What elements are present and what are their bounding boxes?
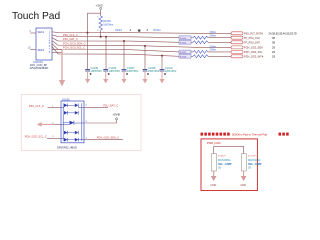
wire row1 pin1 to port — [52, 32, 233, 34]
svg-text:GND: GND — [240, 183, 246, 187]
svg-text:PCH_I2C0_INT#: PCH_I2C0_INT# — [244, 55, 264, 59]
svg-text:P5U_DAT_C: P5U_DAT_C — [103, 104, 118, 108]
svg-text:+5VB: +5VB — [112, 113, 119, 117]
junction node row4 — [144, 45, 146, 47]
port PCH_I2C0_INT# — [231, 55, 275, 59]
svg-text:SEK1: SEK1 — [38, 30, 45, 34]
svg-text:10KOhm: 10KOhm — [103, 23, 113, 26]
svg-text:10PF/50V: 10PF/50V — [109, 69, 121, 73]
wire R1036 to row2 — [100, 30, 102, 37]
svg-text:10PF/50V: 10PF/50V — [148, 69, 160, 73]
wire row2 pin2 to X104 — [52, 35, 179, 38]
wire jumper top — [214, 146, 244, 153]
region box PWR_DAM — [201, 139, 257, 191]
note title pads — [201, 133, 289, 137]
wire P5U_DAT_C right — [84, 106, 108, 108]
svg-text:PCH_I2C0_SCL_C: PCH_I2C0_SCL_C — [63, 46, 85, 50]
wire PCH_I2C0_SDA_C right — [84, 138, 123, 140]
svg-text:E1106: E1106 — [180, 43, 187, 45]
wire X104 element A out — [191, 37, 193, 39]
svg-text:for BOT: for BOT — [218, 155, 226, 158]
svg-text:+3V3: +3V3 — [96, 3, 103, 7]
ground arrow connector — [59, 49, 65, 86]
connector CN1001 — [30, 28, 53, 70]
resistor X104 element A (TP_P5U_CLK) — [193, 36, 208, 39]
svg-text:3Ohm: 3Ohm — [210, 49, 217, 52]
wire pin8 gnd — [52, 51, 62, 53]
resistor R1036 — [97, 16, 113, 32]
svg-text:PCH_I2C0_SDA_C: PCH_I2C0_SDA_C — [63, 42, 86, 46]
junction node row6 — [161, 55, 163, 57]
svg-text:SEK2: SEK2 — [38, 48, 45, 52]
wire row5 pin5 to X104 — [52, 44, 179, 52]
pin numbers D1005 — [52, 105, 87, 140]
svg-text:PCH_I2C0_SDA_C: PCH_I2C0_SDA_C — [97, 136, 120, 140]
svg-text:PCH_I2C0_SCL: PCH_I2C0_SCL — [244, 50, 263, 54]
wire row4 pin4 to X104 — [52, 41, 233, 48]
wire pin10 stub — [30, 49, 36, 51]
svg-text:3Ohm: 3Ohm — [210, 35, 217, 38]
gnd arrow JB1 — [211, 171, 217, 187]
junction node row2 cap — [105, 36, 107, 38]
svg-text:P5U_PLT_RST#: P5U_PLT_RST# — [244, 32, 263, 36]
svg-text:SGL_JUMP: SGL_JUMP — [248, 163, 262, 166]
wire X104 element C out — [191, 51, 193, 53]
svg-text:12V1804948401: 12V1804948401 — [30, 66, 50, 70]
filter E1107 — [179, 50, 191, 54]
wire row3 pin3 to port — [52, 38, 179, 43]
ESD array D1005 — [57, 98, 84, 150]
svg-text:PCH_I2C0_SCL_C: PCH_I2C0_SCL_C — [25, 135, 47, 139]
wire pin9 stub — [30, 32, 36, 34]
wire PCH_I2C0_SCL_C left — [47, 138, 61, 140]
wire pin7 gnd — [52, 48, 62, 50]
resistor X104 element D (PCH_I2C0_INT#) — [193, 55, 208, 58]
region box ESD group — [21, 95, 141, 151]
capacitor C1045 — [85, 33, 102, 84]
svg-text:DRV5R32_4BSD: DRV5R32_4BSD — [57, 145, 77, 149]
jumper JB1 — [211, 154, 231, 171]
diode pair row2 — [64, 111, 78, 115]
capacitor C1047 — [121, 41, 138, 83]
diode pair row4 — [64, 138, 78, 142]
capacitor C1048 — [142, 46, 159, 83]
port TP_P5U_CLK — [231, 36, 275, 40]
resistor X104 element C (PCH_I2C0_SCL) — [193, 50, 208, 53]
svg-text:MGT2445G: MGT2445G — [248, 159, 261, 162]
capacitor C1046 — [103, 37, 120, 84]
svg-text:JB: JB — [218, 167, 221, 170]
svg-text:JB: JB — [248, 167, 251, 170]
junction node row3 — [123, 40, 125, 42]
wire row6 pin6 to port — [52, 47, 179, 57]
port P5U_PLT_RST# — [231, 32, 297, 36]
wire X104 element D out — [191, 55, 193, 57]
svg-text:for TOP: for TOP — [248, 155, 256, 158]
svg-text:10PF/50V: 10PF/50V — [90, 69, 102, 73]
svg-text:TP_P5U_DAT: TP_P5U_DAT — [244, 41, 260, 45]
resistor X104 element B (TP_P5U_DAT) — [193, 41, 208, 44]
svg-text:PWR_DAM: PWR_DAM — [207, 141, 221, 145]
svg-text:GND: GND — [211, 183, 217, 187]
power +3V3 — [96, 3, 103, 16]
svg-text:E1108: E1108 — [180, 57, 187, 59]
svg-text:SGL_JUMP: SGL_JUMP — [218, 163, 232, 166]
svg-text:MGT2445G: MGT2445G — [218, 159, 231, 162]
svg-text:500Ohm Pad or Thermal Pad: 500Ohm Pad or Thermal Pad — [232, 133, 268, 137]
svg-text:Touch Pad: Touch Pad — [12, 11, 60, 22]
junction node row1 — [87, 32, 89, 34]
svg-text:E1107: E1107 — [180, 52, 187, 54]
wire power branch left — [88, 13, 101, 33]
svg-text:10PF/50V: 10PF/50V — [127, 69, 139, 73]
filter pad E1105 — [179, 36, 191, 40]
svg-text:E1105: E1105 — [180, 38, 187, 40]
svg-text:P5U_DAT_C: P5U_DAT_C — [63, 37, 78, 41]
resistor pack label X104 — [115, 28, 161, 33]
gnd arrow left esd — [37, 122, 61, 127]
port TP_P5U_DAT — [231, 41, 275, 45]
diode pair row3 — [64, 131, 78, 135]
svg-text:X104: X104 — [115, 28, 122, 32]
power +5VB — [84, 113, 120, 123]
svg-text:P5U_CLK_C: P5U_CLK_C — [29, 104, 44, 108]
filter E1106 — [179, 41, 191, 45]
svg-text:PCH_I2C0_SDA: PCH_I2C0_SDA — [244, 46, 263, 50]
port PCH_I2C0_SCL — [231, 50, 275, 54]
jumper JB2 — [241, 154, 262, 171]
zener diode center — [63, 121, 74, 125]
capacitor C1019 — [159, 56, 176, 84]
diode pair row1 — [64, 104, 78, 108]
gnd arrow JB2 — [240, 171, 246, 187]
filter E1108 — [179, 55, 191, 59]
svg-text:3Ohm: 3Ohm — [153, 28, 161, 32]
port PCH_I2C0_SDA — [231, 46, 275, 50]
svg-text:24,38,50,55,46,55,53,78: 24,38,50,55,46,55,53,78 — [269, 32, 298, 36]
svg-text:10PF/50V: 10PF/50V — [165, 69, 177, 73]
svg-text:TP_P5U_CLK: TP_P5U_CLK — [244, 36, 260, 40]
wire P5U_CLK_C left — [48, 107, 62, 109]
connector pin numbers 1-8 — [28, 31, 51, 54]
wire X104 element B out — [191, 41, 193, 43]
junction node row2 R — [100, 36, 102, 38]
svg-text:P5U_CLK_C: P5U_CLK_C — [63, 33, 78, 37]
